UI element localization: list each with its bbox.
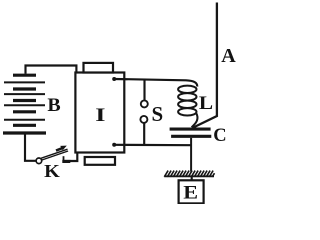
svg-text:I: I (95, 105, 105, 126)
svg-text:B: B (47, 95, 60, 115)
svg-text:K: K (44, 162, 60, 182)
svg-text:A: A (221, 45, 236, 67)
svg-text:L: L (199, 93, 213, 114)
svg-text:S: S (152, 102, 164, 126)
svg-text:C: C (213, 126, 226, 146)
svg-text:E: E (183, 183, 198, 203)
